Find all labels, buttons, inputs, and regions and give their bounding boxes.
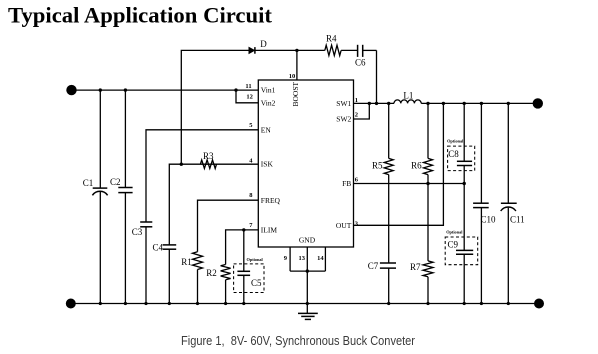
junction rail C11: [507, 302, 510, 305]
node VOUT output terminal: [533, 98, 543, 108]
capacitor C8 optional: [447, 103, 475, 183]
svg-text:C1: C1: [83, 178, 94, 188]
junction OUT sense on VOUT rail: [442, 102, 445, 105]
resistor R6: [411, 103, 432, 261]
junction rail GND stem: [306, 302, 309, 305]
wire SW1 pin 1: [354, 102, 395, 104]
wire EN pin 5 to C3: [146, 130, 258, 222]
capacitor C5 optional: [234, 230, 264, 304]
svg-text:Optional: Optional: [447, 138, 464, 143]
node GND right terminal: [534, 299, 544, 309]
svg-text:C7: C7: [368, 261, 379, 271]
junction diode branch on ISK node: [180, 163, 183, 166]
wire top VIN rail: [72, 89, 259, 91]
svg-text:BOOST: BOOST: [291, 81, 300, 106]
wire bottom GND rail: [71, 303, 539, 305]
junction C5 tap on ILIM: [242, 228, 245, 231]
svg-text:Optional: Optional: [446, 230, 463, 235]
wire ILIM pin 7 to R2: [226, 230, 259, 265]
junction Vin2 bracket on VIN rail: [234, 88, 237, 91]
svg-text:R6: R6: [411, 161, 422, 171]
svg-text:2: 2: [355, 111, 358, 118]
svg-text:Optional: Optional: [247, 257, 264, 262]
junction R6 on VOUT rail: [426, 102, 429, 105]
capacitor C7: [368, 261, 396, 303]
svg-text:6: 6: [355, 177, 359, 184]
resistor R3: [200, 151, 258, 169]
svg-text:8: 8: [249, 192, 253, 199]
svg-text:3: 3: [355, 221, 359, 228]
svg-text:SW2: SW2: [336, 115, 351, 124]
junction C6 drop on SW1: [375, 102, 378, 105]
svg-text:R4: R4: [326, 34, 337, 44]
wire SW2 pin 2 bracket: [354, 103, 370, 119]
svg-text:C4: C4: [152, 242, 163, 252]
capacitor C6: [355, 45, 377, 68]
ground symbol: [298, 304, 318, 320]
svg-text:Vin2: Vin2: [261, 98, 276, 107]
junction C1 on VIN rail: [99, 88, 102, 91]
junction C10 on VOUT rail: [480, 102, 483, 105]
inductor L1: [394, 91, 421, 104]
resistor R4: [325, 34, 358, 56]
svg-text:C10: C10: [481, 215, 497, 225]
wire Vin2 bracket pin 12: [236, 90, 258, 103]
resistor R1: [181, 252, 202, 304]
capacitor C2: [110, 90, 133, 303]
svg-text:12: 12: [246, 94, 253, 101]
wire FREQ pin 8 to R1: [198, 200, 259, 252]
junction FB divider tap: [426, 182, 429, 185]
svg-text:5: 5: [249, 122, 253, 129]
junction rail C4: [168, 302, 171, 305]
capacitor C11: [501, 103, 525, 303]
junction R5 snubber on SW1: [387, 102, 390, 105]
svg-text:7: 7: [249, 222, 253, 229]
svg-text:Vin1: Vin1: [261, 86, 276, 95]
svg-text:ISK: ISK: [261, 159, 274, 168]
junction rail C10: [480, 302, 483, 305]
wire BOOST pin 10 stub: [296, 50, 298, 80]
wire OUT pin 3 sense: [354, 103, 444, 225]
svg-text:GND: GND: [299, 235, 316, 244]
junction rail R1: [196, 302, 199, 305]
svg-text:10: 10: [289, 73, 296, 80]
junction SW2 on SW1: [368, 102, 371, 105]
svg-text:D: D: [260, 39, 267, 49]
junction C8 on VOUT rail: [463, 102, 466, 105]
junction rail C9: [463, 302, 466, 305]
svg-text:R5: R5: [372, 161, 383, 171]
svg-text:R1: R1: [181, 257, 192, 267]
svg-text:C6: C6: [355, 57, 366, 67]
wire VOUT rail: [421, 102, 538, 104]
junction C8 C9 on FB: [463, 182, 466, 185]
wire FB pin 6: [354, 183, 465, 185]
capacitor C3: [132, 222, 153, 304]
junction rail C2: [124, 302, 127, 305]
junction BOOST tap: [295, 49, 298, 52]
wire diode branch riser: [181, 50, 249, 164]
junction C11 on VOUT rail: [507, 102, 510, 105]
svg-text:EN: EN: [261, 125, 272, 134]
svg-text:Typical Application Circuit: Typical Application Circuit: [8, 3, 273, 28]
svg-text:R2: R2: [206, 268, 217, 278]
junction rail R2: [224, 302, 227, 305]
capacitor C10: [473, 103, 496, 303]
svg-text:9: 9: [284, 255, 288, 262]
svg-text:C5: C5: [251, 278, 262, 288]
svg-text:C8: C8: [448, 149, 459, 159]
svg-text:13: 13: [298, 255, 305, 262]
capacitor C9 optional: [445, 184, 478, 304]
node VIN input terminal: [66, 85, 76, 95]
junction rail C3: [144, 302, 147, 305]
svg-text:SW1: SW1: [336, 99, 351, 108]
svg-text:14: 14: [317, 255, 324, 262]
junction C2 on VIN rail: [124, 88, 127, 91]
junction rail C7: [387, 302, 390, 305]
wire ISK pin 4 node: [169, 164, 216, 245]
resistor R7: [410, 261, 433, 304]
svg-text:C3: C3: [132, 227, 143, 237]
resistor R5: [372, 103, 393, 263]
svg-text:Figure 1, 8V- 60V, Synchronou: Figure 1, 8V- 60V, Synchronous Buck Conv…: [181, 333, 416, 348]
svg-text:ILIM: ILIM: [261, 226, 278, 235]
junction rail C5: [242, 302, 245, 305]
svg-text:C9: C9: [448, 240, 459, 250]
capacitor C4: [152, 242, 176, 303]
diode D: [249, 39, 325, 54]
svg-text:R3: R3: [203, 151, 214, 161]
svg-text:FREQ: FREQ: [261, 196, 281, 205]
svg-text:FB: FB: [342, 179, 351, 188]
wire C6 to SW1: [376, 50, 378, 103]
node GND left terminal: [66, 299, 76, 309]
junction rail C1: [99, 302, 102, 305]
svg-text:C11: C11: [510, 215, 525, 225]
junction rail R7: [426, 302, 429, 305]
svg-text:OUT: OUT: [336, 221, 352, 230]
svg-text:11: 11: [245, 83, 251, 90]
svg-text:R7: R7: [410, 262, 421, 272]
capacitor C1: [83, 90, 108, 303]
svg-text:L1: L1: [403, 91, 413, 101]
svg-text:C2: C2: [110, 177, 121, 187]
resistor R2: [206, 265, 230, 304]
op-amp U1 IC body: [258, 80, 353, 247]
wire GND pins 9 13 14 bracket: [290, 247, 325, 304]
